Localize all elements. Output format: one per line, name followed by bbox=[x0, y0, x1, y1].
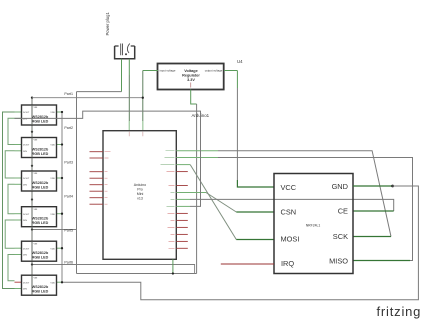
svg-text:VIN: VIN bbox=[34, 277, 38, 279]
svg-text:IRQ: IRQ bbox=[281, 259, 294, 268]
svg-text:VDD: VDD bbox=[50, 145, 55, 147]
wire led3-led4 link bbox=[8, 184, 15, 213]
wire arduino gnd to bottom rail bbox=[172, 259, 174, 273]
plug center pin dot bbox=[125, 53, 127, 55]
wire 3.3V rail green top bbox=[236, 71, 238, 89]
wire D6 green segment bbox=[176, 205, 190, 207]
WS2812b LED Part5 bbox=[15, 241, 63, 261]
wire IRQ red bbox=[221, 263, 274, 265]
svg-text:DIN: DIN bbox=[23, 289, 27, 291]
svg-text:CSN: CSN bbox=[281, 208, 297, 217]
wire plug right prong to arduino RAW bbox=[128, 59, 130, 75]
wire regulator input bbox=[143, 70, 158, 72]
wire part6 bbox=[32, 265, 195, 274]
arduino right pin labels bbox=[167, 172, 175, 249]
wire MISO green segment bbox=[353, 260, 410, 262]
node bus junction 2 bbox=[31, 131, 33, 133]
arduino right green pin labels bbox=[161, 151, 175, 207]
svg-text:DIN: DIN bbox=[23, 151, 27, 153]
svg-text:RGB LED: RGB LED bbox=[32, 119, 49, 123]
svg-text:Pro: Pro bbox=[137, 188, 143, 192]
wire gnd rail vertical bbox=[76, 92, 78, 274]
svg-text:RGB LED: RGB LED bbox=[32, 221, 49, 225]
node bus junction 4 bbox=[31, 198, 33, 200]
wire D11 to MOSI diagonal gray bbox=[190, 165, 236, 240]
svg-text:VIN: VIN bbox=[34, 243, 38, 245]
wire D8 green segment bbox=[176, 192, 206, 194]
svg-text:WS2812b: WS2812b bbox=[32, 148, 49, 152]
wire CSN green segment bbox=[236, 211, 274, 213]
svg-text:3.3V: 3.3V bbox=[187, 78, 195, 82]
svg-text:WS2812b: WS2812b bbox=[32, 285, 49, 289]
wire gnd bottom horizontal bbox=[77, 273, 197, 275]
regulator gnd pin tick bbox=[190, 83, 192, 88]
wire NRF GND green bbox=[353, 185, 392, 187]
svg-text:DOUT: DOUT bbox=[23, 248, 30, 250]
arduino left pins (red stubs) bbox=[90, 152, 104, 205]
svg-text:Part3: Part3 bbox=[64, 161, 73, 165]
svg-text:RGB LED: RGB LED bbox=[32, 256, 49, 260]
wire led4-led5 link bbox=[5, 220, 14, 248]
wire led chain far-left vertical bbox=[3, 112, 15, 289]
svg-text:Part2: Part2 bbox=[64, 126, 73, 130]
wire D7 to CE over-wire gray bbox=[190, 199, 394, 211]
wire regulator gnd down bbox=[191, 90, 197, 105]
wire D7 green segment bbox=[176, 198, 190, 200]
svg-text:fritzing: fritzing bbox=[377, 304, 421, 319]
svg-text:VIN: VIN bbox=[34, 107, 38, 109]
WS2812b LED Part1 bbox=[15, 105, 63, 125]
arduino top pin ticks bbox=[129, 132, 143, 137]
svg-text:DOUT: DOUT bbox=[23, 112, 30, 114]
arduino left pin labels bbox=[105, 152, 111, 205]
wire regulator output bbox=[224, 70, 237, 72]
wire part1 bbox=[32, 97, 143, 99]
svg-text:Part6: Part6 bbox=[64, 261, 73, 265]
svg-text:GND: GND bbox=[332, 182, 348, 191]
svg-text:Voltage: Voltage bbox=[184, 69, 197, 73]
svg-text:VCC: VCC bbox=[281, 183, 297, 192]
svg-text:DOUT: DOUT bbox=[23, 145, 30, 147]
wire plug left to rail bbox=[77, 91, 122, 93]
svg-text:DIN: DIN bbox=[23, 185, 27, 187]
wire CE green segment bbox=[353, 210, 394, 212]
svg-text:DIN: DIN bbox=[23, 220, 27, 222]
node VDD rail junctions bbox=[61, 111, 63, 113]
svg-text:VDD: VDD bbox=[50, 112, 55, 114]
svg-text:Part4: Part4 bbox=[64, 195, 73, 199]
wire led5-led6 link bbox=[8, 255, 15, 281]
node part1 bus junction bbox=[31, 97, 33, 99]
wire 3.3V rail to NRF VCC green bbox=[237, 180, 274, 187]
NRF24L1 module bbox=[274, 174, 353, 274]
voltage regulator U4 bbox=[158, 64, 224, 90]
svg-text:CE: CE bbox=[338, 207, 348, 216]
wire 3.3V rail gray bbox=[236, 88, 238, 180]
svg-text:VDD: VDD bbox=[50, 178, 55, 180]
svg-text:DIN: DIN bbox=[23, 255, 27, 257]
svg-text:output voltage: output voltage bbox=[205, 68, 223, 72]
WS2812b LED Part3 bbox=[15, 171, 63, 191]
wire VDD rail vertical bbox=[61, 112, 63, 282]
wire D13 to SCK gray bbox=[218, 151, 391, 237]
wire D8 to CSN diagonal gray bbox=[206, 193, 236, 213]
power plug P1 bbox=[115, 46, 135, 59]
svg-text:NRF24L1: NRF24L1 bbox=[306, 224, 321, 228]
wire regulator input down to arduino VCC bbox=[142, 71, 144, 122]
svg-text:DOUT: DOUT bbox=[23, 214, 30, 216]
svg-text:RGB LED: RGB LED bbox=[32, 290, 49, 294]
wire MOSI green segment bbox=[236, 239, 274, 241]
svg-text:DOUT: DOUT bbox=[23, 178, 30, 180]
svg-text:Mini: Mini bbox=[137, 192, 144, 196]
op arduino U1 body bbox=[103, 131, 176, 260]
wire plug left prong down bbox=[121, 59, 123, 92]
wire SCK green segment bbox=[353, 236, 391, 238]
svg-text:VIN: VIN bbox=[34, 140, 38, 142]
wire NRF GND wrap to LED rail bbox=[62, 186, 418, 300]
svg-text:Regulator: Regulator bbox=[182, 74, 200, 78]
plug prong right (switch curve) bbox=[127, 44, 129, 54]
svg-text:RGB LED: RGB LED bbox=[32, 185, 49, 189]
svg-text:WS2812b: WS2812b bbox=[32, 251, 49, 255]
LEDs Part1..Part6 bbox=[15, 105, 63, 295]
arduino right red stubs bbox=[176, 172, 188, 249]
node bus junction 3 bbox=[31, 165, 33, 167]
svg-text:VDD: VDD bbox=[50, 214, 55, 216]
wire led1-led2 link bbox=[8, 118, 15, 144]
svg-text:Arduino: Arduino bbox=[134, 183, 146, 187]
wire D13 green segment bbox=[176, 150, 218, 152]
svg-text:SCK: SCK bbox=[333, 232, 348, 241]
svg-text:MISO: MISO bbox=[329, 257, 348, 266]
wire D11 green segment bbox=[176, 164, 190, 166]
svg-text:VDD: VDD bbox=[50, 248, 55, 250]
WS2812b LED Part4 bbox=[15, 207, 63, 227]
plug prong left bbox=[121, 44, 123, 56]
svg-text:Power plug1: Power plug1 bbox=[105, 12, 110, 36]
svg-text:WS2812b: WS2812b bbox=[32, 217, 49, 221]
wire D12 green segment bbox=[176, 157, 218, 159]
wire led2-led3 link bbox=[5, 151, 14, 178]
svg-text:MOSI: MOSI bbox=[281, 235, 300, 244]
svg-text:VIN: VIN bbox=[34, 173, 38, 175]
svg-text:DOUT: DOUT bbox=[23, 282, 30, 284]
svg-text:VIN: VIN bbox=[34, 209, 38, 211]
svg-text:U4: U4 bbox=[237, 59, 243, 64]
svg-text:RGB LED: RGB LED bbox=[32, 152, 49, 156]
svg-text:VDD: VDD bbox=[50, 282, 55, 284]
node gnd junction bbox=[391, 185, 394, 188]
WS2812b LED Part2 bbox=[15, 138, 63, 158]
svg-text:Part1: Part1 bbox=[64, 92, 73, 96]
WS2812b LED Part6 bbox=[15, 275, 63, 295]
wire regulator gnd down gray bbox=[196, 104, 198, 274]
node part1 right junction bbox=[142, 97, 144, 99]
wire D6 ring to LED1 DIN gray bbox=[15, 111, 201, 206]
svg-text:v13: v13 bbox=[137, 197, 143, 201]
wire VIN bus vertical bbox=[31, 98, 33, 296]
svg-text:input voltage: input voltage bbox=[160, 68, 176, 72]
wire part5 bus to rail bbox=[32, 229, 77, 231]
wire D12 to MISO wrap gray bbox=[218, 158, 413, 261]
svg-text:Part5: Part5 bbox=[64, 229, 73, 233]
svg-text:WS2812b: WS2812b bbox=[32, 181, 49, 185]
